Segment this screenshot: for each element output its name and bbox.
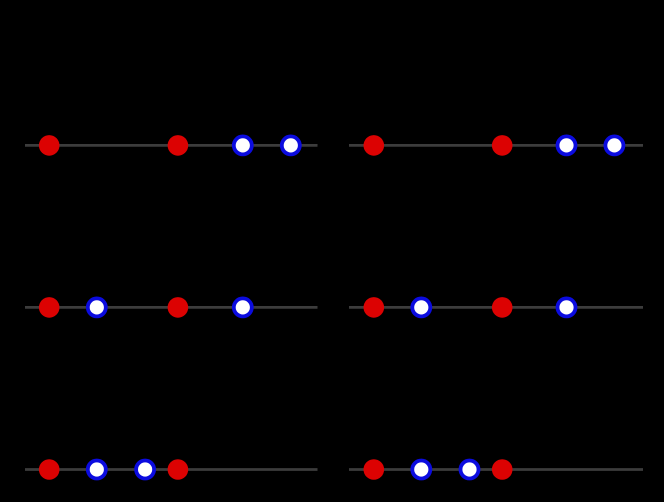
node: open point E2 (blue ring) [88,461,106,479]
number line 6 (bottom-right panel) [349,459,643,480]
node: open point D2 (blue ring) [412,298,430,316]
number line 3 (middle-left panel) [25,297,318,318]
node: closed point F4 (red) [492,459,513,480]
node: closed point A2 (red) [168,135,189,156]
node: open point C2 (blue ring) [88,298,106,316]
wire: axis line row3 right [349,468,643,471]
wire: axis line row2 left [25,306,318,309]
node: closed point C3 (red) [168,297,189,318]
node: closed point E1 (red) [39,459,60,480]
node: open point E3 (blue ring) [136,461,154,479]
node: open point F3 (blue ring) [461,461,479,479]
node: open point F2 (blue ring) [412,461,430,479]
node: closed point D3 (red) [492,297,513,318]
node: closed point A1 (red) [39,135,60,156]
node: closed point F1 (red) [364,459,385,480]
node: open point B4 (blue ring) [605,136,623,154]
node: open point A3 (blue ring) [234,136,252,154]
node: closed point B1 (red) [364,135,385,156]
node: open point C4 (blue ring) [234,298,252,316]
node: closed point E4 (red) [168,459,189,480]
node: open point A4 (blue ring) [282,136,300,154]
node: closed point B2 (red) [492,135,513,156]
node: open point B3 (blue ring) [558,136,576,154]
wire: axis line row1 left [25,144,318,147]
node: closed point D1 (red) [364,297,385,318]
number line 2 (top-right panel) [349,135,643,156]
number line 5 (bottom-left panel) [25,459,318,480]
wire: axis line row2 right [349,306,643,309]
wire: axis line row3 left [25,468,318,471]
number line 1 (top-left panel) [25,135,318,156]
number line 4 (middle-right panel) [349,297,643,318]
node: open point D4 (blue ring) [558,298,576,316]
node: closed point C1 (red) [39,297,60,318]
wire: axis line row1 right [349,144,643,147]
